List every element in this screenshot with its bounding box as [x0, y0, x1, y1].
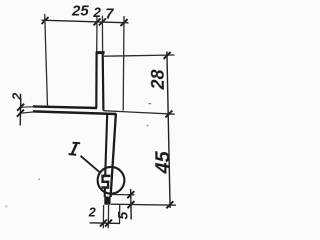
hem fold detail: left stroke	[101, 175, 103, 183]
hem fold detail: bottom bar	[101, 186, 109, 188]
label I bottom serif	[69, 153, 77, 156]
svg-text:7: 7	[105, 7, 114, 23]
extension line web left	[96, 16, 98, 52]
extension line 25 left	[45, 14, 48, 107]
tick 5 bottom	[128, 201, 135, 208]
hem fold detail: right stroke	[107, 181, 109, 189]
profile: lower web left face upper segment	[105, 114, 107, 175]
tick at x45	[42, 17, 49, 24]
profile: flange top line	[33, 106, 97, 108]
tick at x102	[99, 19, 106, 26]
extension line middle (from flange)	[103, 111, 174, 115]
left thickness extension bottom	[19, 112, 34, 113]
right tick top	[164, 52, 171, 59]
noise speck	[147, 125, 149, 127]
hem height extension upper	[112, 194, 135, 196]
bottom thickness extension left	[102, 205, 104, 228]
bottom tick left	[100, 220, 107, 227]
bottom right connector line	[119, 205, 121, 224]
hem height dimension line (5)	[130, 189, 133, 220]
profile: upper web right face	[102, 52, 105, 111]
svg-text:5: 5	[115, 212, 131, 220]
extension line web right	[101, 16, 103, 52]
bottom tick right	[105, 220, 112, 227]
noise speck	[6, 206, 8, 207]
right dimension line (28 and 45)	[167, 52, 170, 209]
left thickness extension top	[19, 106, 34, 109]
bottom pressed hem (solid)	[104, 197, 110, 205]
label I top serif	[73, 142, 81, 145]
profile: upper web left face	[95, 52, 97, 108]
profile: lower web right face	[111, 114, 116, 197]
paper background	[0, 0, 186, 236]
label I main stroke	[72, 143, 77, 154]
svg-text:25: 25	[71, 2, 89, 19]
bottom thickness dimension line (2)	[90, 222, 121, 225]
svg-text:2: 2	[9, 92, 24, 101]
profile: flange bottom line	[33, 111, 116, 114]
tick 5 top	[127, 191, 134, 198]
left thickness dimension line	[19, 99, 22, 126]
noise speck	[148, 103, 151, 104]
right tick bottom	[166, 201, 173, 208]
profile: top cap of upper web	[96, 51, 105, 54]
detail circle	[98, 167, 125, 194]
left tick bottom	[17, 110, 24, 117]
extension line top (from web top)	[104, 55, 175, 56]
extension line bottom (from web bottom)	[111, 204, 176, 205]
hem fold detail: top bar	[101, 175, 110, 178]
tick at x124	[121, 19, 128, 26]
noise speck	[38, 179, 40, 180]
bottom thickness extension right	[107, 205, 109, 228]
right tick middle	[165, 110, 172, 117]
top dimension line	[42, 20, 129, 23]
extension line x124	[122, 16, 125, 111]
tick at x97	[94, 18, 101, 25]
svg-text:2: 2	[88, 206, 96, 220]
left tick top	[17, 104, 24, 111]
svg-text:28: 28	[148, 69, 168, 90]
leader line to detail I	[81, 156, 100, 172]
profile: lower web left face lower segment	[104, 188, 106, 197]
hem fold detail: middle bar	[101, 181, 109, 183]
svg-text:45: 45	[152, 150, 174, 174]
svg-text:2: 2	[92, 5, 101, 20]
